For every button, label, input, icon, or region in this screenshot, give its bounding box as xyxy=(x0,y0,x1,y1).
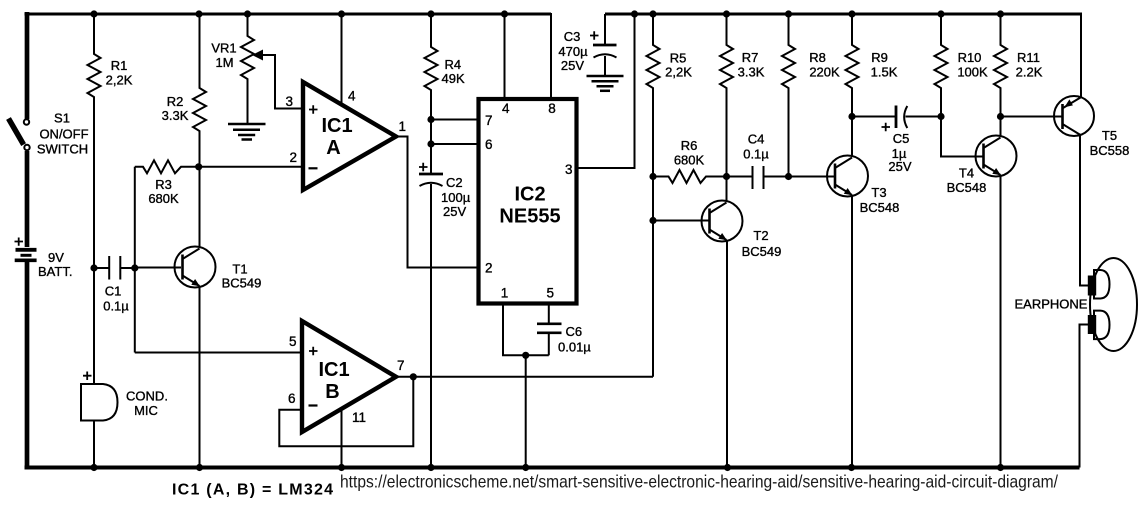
svg-text:R3: R3 xyxy=(155,177,172,192)
node: junction dot at C1 left / mic line xyxy=(90,264,97,271)
wire: C6/pin1 node down to ground rail xyxy=(525,355,527,467)
svg-text:C3: C3 xyxy=(564,29,581,44)
node: junction R5 on output bus xyxy=(649,10,656,17)
wire: IC1B pin 5 input wire xyxy=(135,352,302,354)
wire: IC2 pin 1 down to C6 bottom node xyxy=(503,304,549,356)
capacitor C2 (polarized) xyxy=(419,144,471,468)
svg-text:0.1µ: 0.1µ xyxy=(103,299,129,314)
wire: R3 left lead down to C1 junction and to IC1B pin5 corner xyxy=(134,167,136,353)
svg-text:ON/OFF: ON/OFF xyxy=(39,127,88,142)
node: junction dot at C1 right / T1 base line xyxy=(131,264,138,271)
wire: T4 emitter down to ground rail xyxy=(1000,176,1002,468)
resistor R5 xyxy=(647,14,693,177)
node: junction T1 emitter on ground rail xyxy=(196,464,203,471)
svg-text:R11: R11 xyxy=(1017,50,1040,65)
svg-text:VR1: VR1 xyxy=(211,41,236,56)
node: junction dot C4/R8/T3 base xyxy=(785,173,792,180)
svg-text:2: 2 xyxy=(290,150,298,165)
svg-text:MIC: MIC xyxy=(134,403,158,418)
svg-text:T4: T4 xyxy=(959,166,974,181)
svg-text:BC558: BC558 xyxy=(1090,143,1130,158)
wire: left rail from top rail to switch xyxy=(25,12,30,119)
node: junction R2 on V+ rail xyxy=(195,10,202,17)
op-amp U1B (IC1 B) xyxy=(288,321,405,432)
svg-text:BC548: BC548 xyxy=(947,180,987,195)
resistor R11 xyxy=(994,14,1043,117)
node: junction IC1B pin11 on ground rail xyxy=(338,464,345,471)
node: junction C6/pin1 branch on ground rail xyxy=(522,464,529,471)
resistor R6 xyxy=(653,138,725,183)
svg-text:220K: 220K xyxy=(809,65,840,80)
svg-text:C4: C4 xyxy=(748,132,765,147)
svg-text:3: 3 xyxy=(286,94,294,109)
svg-text:R10: R10 xyxy=(958,50,982,65)
node: junction R7 on output bus xyxy=(723,10,730,17)
node: junction C2 on ground rail xyxy=(427,464,434,471)
svg-text:680K: 680K xyxy=(148,191,179,206)
svg-text:2,2K: 2,2K xyxy=(106,73,133,88)
transistor T3 BC548 xyxy=(827,156,899,216)
svg-text:8: 8 xyxy=(548,101,556,116)
wire: ground bottom rail xyxy=(25,466,1080,470)
IC U2 (IC2 NE555) xyxy=(479,99,577,304)
wire: V+ top rail left segment xyxy=(25,13,552,16)
svg-text:6: 6 xyxy=(288,391,296,406)
svg-text:1: 1 xyxy=(399,119,407,134)
svg-text:A: A xyxy=(326,137,340,159)
svg-text:7: 7 xyxy=(397,358,405,373)
svg-text:470µ: 470µ xyxy=(558,44,588,59)
svg-text:BATT.: BATT. xyxy=(38,264,72,279)
wire: T1 collector up to R2/R3 junction xyxy=(199,167,201,248)
node: junction R8 on output bus xyxy=(785,10,792,17)
node: junction dot pin6 xyxy=(427,140,434,147)
resistor R7 xyxy=(720,14,765,177)
capacitor C3 (polarized) with ground xyxy=(558,14,616,75)
svg-text:R9: R9 xyxy=(871,50,888,65)
wire: T5 collector down to earphone xyxy=(1080,135,1089,286)
transistor T4 BC548 xyxy=(947,136,1017,196)
svg-text:T1: T1 xyxy=(232,262,247,277)
resistor R10 xyxy=(935,14,989,117)
svg-text:NE555: NE555 xyxy=(499,206,560,228)
resistor R2 xyxy=(162,14,206,167)
node: junction R1 on V+ rail xyxy=(90,10,97,17)
svg-text:BC549: BC549 xyxy=(742,244,782,259)
node: junction dot R5 line / T2 base xyxy=(649,217,656,224)
svg-text:R7: R7 xyxy=(742,50,759,65)
ground symbol below C3 xyxy=(587,76,624,91)
svg-text:COND.: COND. xyxy=(126,389,168,404)
wire: IC2 pin 3 output riser to top bus xyxy=(577,14,635,168)
wire: T5 emitter up to top rail end xyxy=(1080,13,1082,98)
svg-text:1: 1 xyxy=(501,286,509,301)
svg-text:EARPHONE: EARPHONE xyxy=(1015,297,1088,312)
wire: T1 emitter down to ground rail xyxy=(199,287,201,468)
svg-text:IC1: IC1 xyxy=(321,115,352,137)
svg-text:5: 5 xyxy=(547,286,555,301)
svg-text:T2: T2 xyxy=(753,228,768,243)
svg-text:C5: C5 xyxy=(893,131,910,146)
wire: IC1B feedback loop output to pin 6 xyxy=(279,377,413,447)
resistor R9 xyxy=(846,14,898,117)
svg-text:SWITCH: SWITCH xyxy=(37,142,88,157)
transistor T1 BC549 xyxy=(136,247,261,291)
svg-text:IC2: IC2 xyxy=(514,184,545,206)
wire: R10 node down and right to T4 base xyxy=(941,117,983,157)
svg-text:2: 2 xyxy=(485,261,493,276)
wire: node R4/C2 to IC2 pin 6 xyxy=(431,120,477,145)
svg-text:25V: 25V xyxy=(888,159,911,174)
svg-text:T5: T5 xyxy=(1102,128,1117,143)
svg-text:3.3K: 3.3K xyxy=(162,108,189,123)
svg-text:R4: R4 xyxy=(445,57,462,72)
svg-text:T3: T3 xyxy=(871,185,886,200)
svg-text:R2: R2 xyxy=(167,94,184,109)
node: junction dot C5/R10 xyxy=(937,113,944,120)
svg-text:49K: 49K xyxy=(442,71,465,86)
svg-text:4: 4 xyxy=(348,89,356,104)
wire: microphone bottom to ground rail xyxy=(93,421,95,468)
wire: T2 collector up to R6/R7/C4 node xyxy=(726,177,728,203)
svg-text:4: 4 xyxy=(502,101,510,116)
wire: T3 collector up to R9/C5 node xyxy=(851,117,853,158)
node: junction IC2 pin3 riser on output bus xyxy=(631,10,638,17)
wire: R5 line continues down to T2 base level and IC1B output xyxy=(652,177,654,377)
resistor R8 xyxy=(782,14,840,177)
svg-text:5: 5 xyxy=(289,334,297,349)
node: junction dot under C6 xyxy=(522,352,529,359)
svg-text:25V: 25V xyxy=(561,58,584,73)
transistor T5 BC558 (PNP) xyxy=(1054,96,1129,158)
wire: T3 base wire xyxy=(789,176,835,178)
wire: IC1A pin 4 to V+ rail xyxy=(341,14,343,106)
wire: T2 base wire xyxy=(653,220,709,222)
earphone xyxy=(1015,258,1137,351)
capacitor C5 (polarized) xyxy=(852,106,941,175)
svg-text:https://electronicscheme.net/s: https://electronicscheme.net/smart-sensi… xyxy=(340,472,1058,492)
svg-text:11: 11 xyxy=(352,410,366,425)
potentiometer VR1 xyxy=(211,14,303,123)
svg-text:1M: 1M xyxy=(215,55,233,70)
wire: IC1A pin 2 from R2/R3 junction xyxy=(199,166,303,168)
svg-text:100µ: 100µ xyxy=(441,190,471,205)
node: junction R10 on output bus xyxy=(937,10,944,17)
resistor R3 xyxy=(135,160,197,206)
svg-text:0.01µ: 0.01µ xyxy=(558,340,591,355)
capacitor C4 xyxy=(727,132,789,190)
svg-text:R8: R8 xyxy=(809,50,826,65)
svg-text:680K: 680K xyxy=(674,153,705,168)
node: junction dot R6/R7/C4/T2 xyxy=(723,173,730,180)
transistor T2 BC549 xyxy=(702,201,782,260)
svg-text:100K: 100K xyxy=(957,65,988,80)
node: junction dot R5/R6 xyxy=(649,173,656,180)
svg-text:7: 7 xyxy=(485,113,493,128)
svg-text:6: 6 xyxy=(485,137,493,152)
node: junction dot R9/C5/T3 xyxy=(848,113,855,120)
node: junction T3 emitter on ground rail xyxy=(848,464,855,471)
svg-text:R1: R1 xyxy=(111,58,128,73)
capacitor C6 xyxy=(537,304,591,356)
svg-text:C1: C1 xyxy=(105,284,122,299)
wire: T3 emitter down to ground rail xyxy=(851,196,853,468)
wire: IC2 pin 8 to V+ rail end xyxy=(550,13,552,99)
node: junction dot R2/R3/pin2 xyxy=(195,163,202,170)
battery 9V BATT. xyxy=(15,238,73,280)
node: junction IC2 pin4 on V+ rail xyxy=(501,10,508,17)
node: junction dot R11/T4/T5 base xyxy=(997,113,1004,120)
svg-text:3: 3 xyxy=(565,162,573,177)
wire: T2 emitter down to ground rail xyxy=(726,241,728,468)
wire: left rail from switch to battery xyxy=(25,151,30,247)
svg-text:2.2K: 2.2K xyxy=(1016,65,1043,80)
wire: IC2 pin 4 to V+ rail xyxy=(504,14,506,99)
wire: IC1B pin 11 to ground rail xyxy=(341,409,343,468)
node: junction R4 on V+ rail xyxy=(427,10,434,17)
wire: node R4/C2 to IC2 pin 7 xyxy=(431,119,477,121)
svg-text:0.1µ: 0.1µ xyxy=(743,147,769,162)
resistor R1 xyxy=(88,14,133,266)
node: junction IC1A pin4 on V+ rail xyxy=(338,10,345,17)
wire: earphone lower plug down to ground rail xyxy=(1080,325,1089,468)
node: junction dot IC1B output feedback tap xyxy=(410,373,417,380)
condenser microphone COND. MIC xyxy=(81,372,168,421)
svg-text:B: B xyxy=(325,381,339,403)
node: junction T4 emitter on ground rail xyxy=(997,464,1004,471)
node: junction R9 on output bus xyxy=(848,10,855,17)
svg-text:2,2K: 2,2K xyxy=(665,65,692,80)
svg-text:S1: S1 xyxy=(54,111,70,126)
svg-text:BC548: BC548 xyxy=(860,200,900,215)
capacitor C1 xyxy=(96,256,134,314)
svg-text:C2: C2 xyxy=(446,175,463,190)
wire: IC1B output to R5 riser xyxy=(395,376,653,378)
resistor R4 xyxy=(425,14,465,120)
svg-text:25V: 25V xyxy=(443,204,466,219)
ground symbol below VR1 xyxy=(228,124,266,140)
op-amp U1A (IC1 A) xyxy=(286,82,407,190)
wire: T4 collector up to R11 node xyxy=(1000,117,1002,138)
switch S1 xyxy=(9,111,89,157)
wire: left rail from battery to bottom rail xyxy=(25,261,30,468)
svg-text:R6: R6 xyxy=(681,138,698,153)
svg-text:9V: 9V xyxy=(48,250,64,265)
node: junction microphone on ground rail xyxy=(90,464,97,471)
wire: T5 base wire xyxy=(1001,116,1062,118)
wire: IC1A pin 1 output to IC2 pin 2 xyxy=(395,137,477,268)
svg-text:R5: R5 xyxy=(670,51,687,66)
wire: top rail right segment (output bus) xyxy=(605,13,1081,16)
node: junction dot pin7 xyxy=(427,116,434,123)
svg-text:C6: C6 xyxy=(566,324,583,339)
node: junction R11 on output bus xyxy=(997,10,1004,17)
svg-text:IC1: IC1 xyxy=(318,359,349,381)
node: junction VR1 on V+ rail xyxy=(244,10,251,17)
svg-text:3.3K: 3.3K xyxy=(738,65,765,80)
wire: mic feed from C1 junction down to microphone xyxy=(93,268,95,384)
svg-text:1.5K: 1.5K xyxy=(871,65,898,80)
node: junction T2 emitter on ground rail xyxy=(724,464,731,471)
svg-text:IC1 (A, B) = LM324: IC1 (A, B) = LM324 xyxy=(172,482,333,499)
svg-text:BC549: BC549 xyxy=(222,276,262,291)
